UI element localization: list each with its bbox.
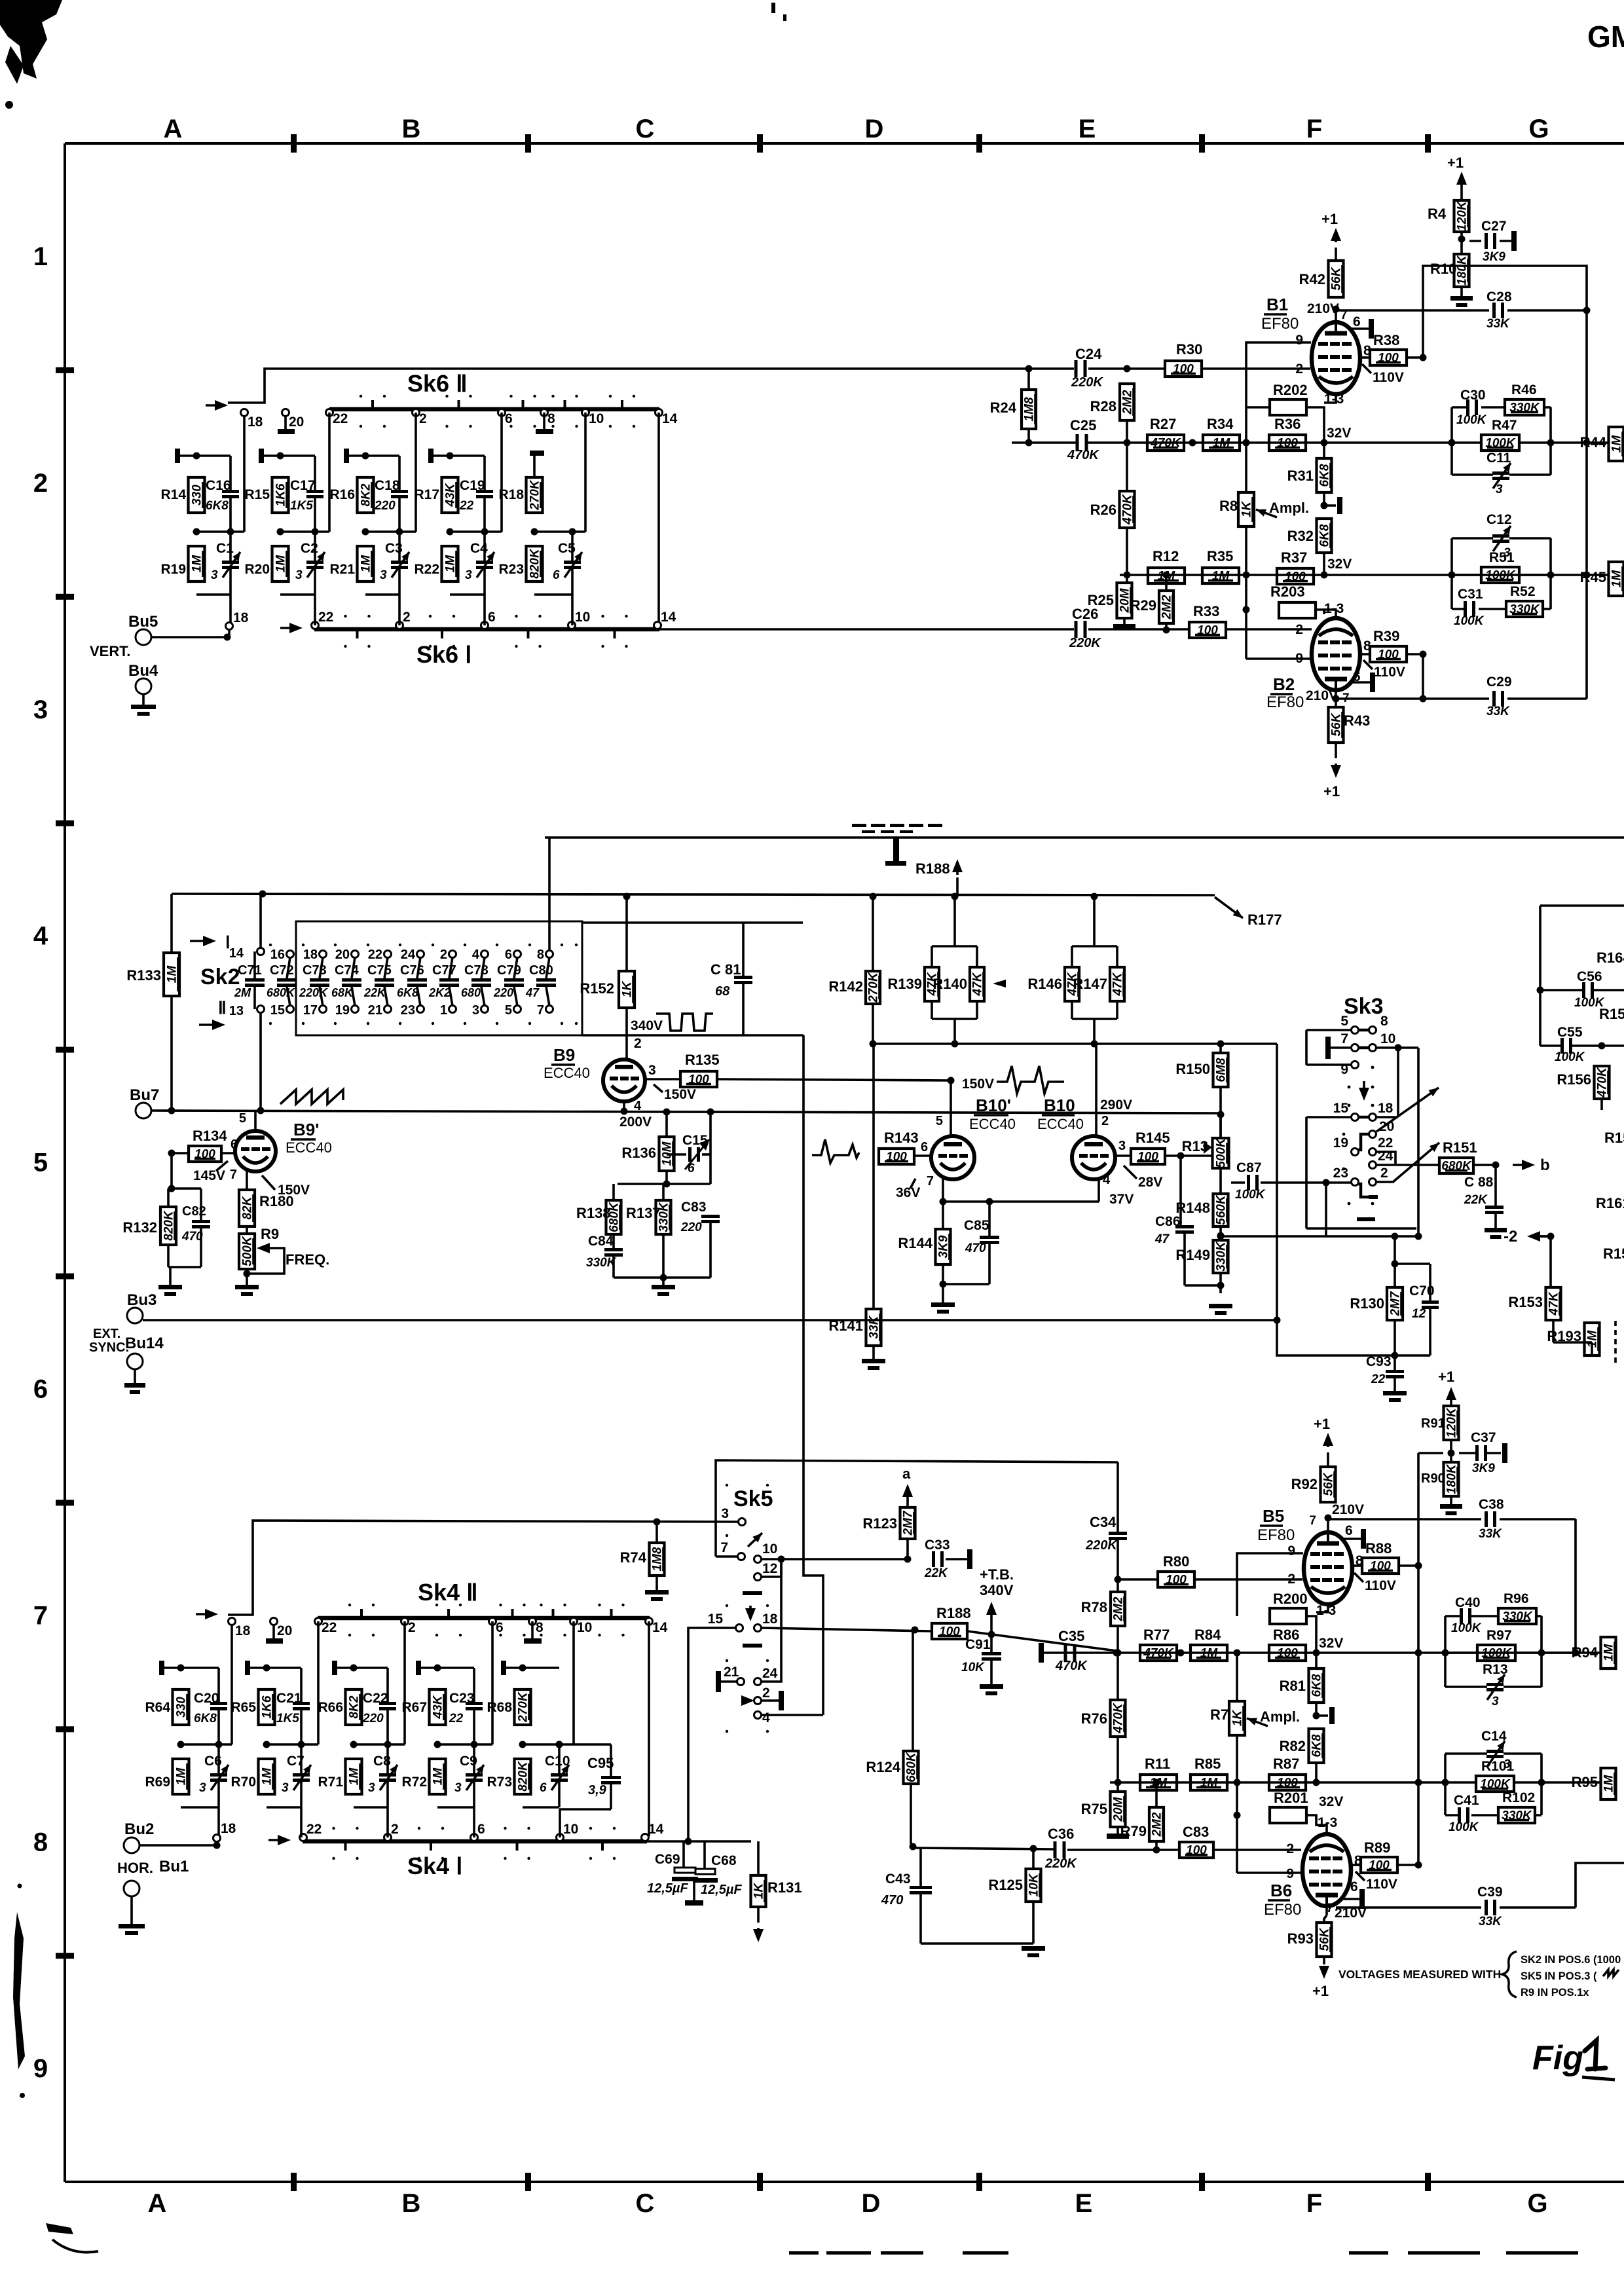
svg-text:C14: C14 <box>1481 1729 1507 1744</box>
tube B10' anode stem <box>950 1080 952 1136</box>
wire cap C22 <box>386 1668 389 1702</box>
svg-text:R71: R71 <box>318 1775 343 1790</box>
svg-text:220K: 220K <box>1085 1538 1118 1553</box>
svg-text:C15: C15 <box>682 1133 708 1148</box>
wires R130 C70 block <box>1393 1236 1396 1287</box>
switch Sk5 contact 12 <box>754 1574 762 1581</box>
svg-text:18: 18 <box>233 610 249 625</box>
capacitor C38 <box>1485 1511 1488 1527</box>
node arrow R177 <box>1215 897 1243 918</box>
svg-text:470: 470 <box>881 1893 903 1908</box>
scan dashes bottom edge <box>789 2251 819 2255</box>
switch Sk3 contacts 5 8 <box>1352 1027 1359 1034</box>
wire cap C3 stems <box>398 532 401 561</box>
switch Sk4 II contact 2 <box>401 1618 409 1625</box>
wire cap C7 stems <box>300 1744 303 1773</box>
resistor R45 <box>1609 562 1624 596</box>
wire R201 right to B6 cathode <box>1306 1815 1316 1820</box>
ground below C69 C68 <box>685 1900 703 1906</box>
svg-text:330K: 330K <box>586 1256 617 1270</box>
wires C43 <box>919 1848 922 1886</box>
ground at Sk6 II contact 20 <box>284 416 287 429</box>
capacitor C21 <box>293 1702 310 1705</box>
wire B5 cathode <box>1316 1604 1328 1612</box>
svg-text:C85: C85 <box>964 1218 989 1233</box>
svg-text:3: 3 <box>1492 1695 1499 1708</box>
tube B5 pin6 terminal <box>1342 1538 1361 1540</box>
wire B5 pin8 to R88 <box>1352 1564 1362 1567</box>
svg-text:C33: C33 <box>925 1538 950 1553</box>
svg-text:R136: R136 <box>621 1145 656 1161</box>
switch Sk6 I wiper arrow <box>280 627 295 629</box>
switch Sk3 contact 23 <box>1352 1179 1359 1186</box>
svg-text:6K8: 6K8 <box>206 499 229 513</box>
svg-text:R66: R66 <box>318 1700 343 1715</box>
wire Sk2 box top extension <box>582 921 803 924</box>
wire R200 right to cathode <box>1306 1616 1316 1654</box>
svg-text:R82: R82 <box>1280 1738 1306 1754</box>
capacitor C74 <box>342 978 361 982</box>
parallel R146 R147 <box>1072 945 1117 948</box>
wire cell4 bottom to contact 6 Sk4 <box>473 1807 475 1837</box>
wires R138 R137 C83 C84 <box>612 1184 615 1200</box>
capacitor C73 <box>310 978 329 982</box>
wire R13 R148 column <box>1219 1115 1222 1138</box>
svg-text:22K: 22K <box>924 1566 948 1580</box>
switch Sk5 contact 2 <box>754 1697 762 1705</box>
svg-text:9: 9 <box>1287 1543 1295 1558</box>
svg-text:R28: R28 <box>1090 398 1116 415</box>
svg-text:R47: R47 <box>1492 418 1517 433</box>
resistor R20 <box>272 546 289 581</box>
svg-text:6: 6 <box>921 1140 928 1154</box>
svg-text:6: 6 <box>231 1137 238 1152</box>
wire C93 ground <box>1393 1355 1396 1370</box>
svg-text:D: D <box>862 2189 881 2218</box>
svg-text:15: 15 <box>708 1612 724 1627</box>
wire cell bottom R15 <box>280 593 315 596</box>
svg-text:C93: C93 <box>1366 1354 1392 1369</box>
svg-text:C78: C78 <box>464 963 489 978</box>
switch Sk4 I contact 10 <box>557 1834 564 1841</box>
svg-text:R4: R4 <box>1428 206 1447 222</box>
svg-text:C23: C23 <box>449 1691 475 1706</box>
compensation block C14 R101 C41 R102 <box>1444 1754 1447 1815</box>
resistor R150 <box>1213 1053 1228 1087</box>
svg-text:8: 8 <box>33 1828 48 1856</box>
wire R149 bottom ground <box>1219 1273 1222 1293</box>
svg-text:9: 9 <box>33 2054 48 2083</box>
svg-text:220K: 220K <box>1044 1856 1077 1871</box>
resistor R36 <box>1269 435 1306 451</box>
wire C81 stems <box>742 923 745 976</box>
svg-text:3: 3 <box>465 568 472 582</box>
svg-text:R152: R152 <box>580 980 614 997</box>
wire cell top R64 <box>162 1667 219 1669</box>
svg-text:Sk4 Ⅰ: Sk4 Ⅰ <box>407 1853 463 1879</box>
svg-text:R9 IN POS.1x: R9 IN POS.1x <box>1521 1987 1589 1999</box>
svg-text:Bu3: Bu3 <box>127 1291 157 1309</box>
resistor R91 <box>1444 1406 1459 1440</box>
svg-text:Ampl.: Ampl. <box>1260 1708 1300 1725</box>
tube B9' pin7 stem <box>246 1170 248 1190</box>
tube B9' ECC40 <box>235 1131 276 1171</box>
wire ext sync drop <box>1276 1044 1278 1320</box>
wire cell bottom R66 <box>354 1806 388 1809</box>
wire Sk2 to Sk5 link risers <box>803 1035 823 1715</box>
capacitor C22 <box>379 1702 396 1705</box>
wire R38 output riser <box>1423 266 1587 699</box>
svg-text:R161: R161 <box>1596 1195 1624 1211</box>
svg-text:20: 20 <box>289 415 304 430</box>
svg-text:5: 5 <box>505 1003 512 1018</box>
switch Sk2 contact 7 bottom <box>546 1006 553 1013</box>
node arrow -2 <box>1535 1235 1547 1238</box>
wire contact8 drop <box>548 838 551 951</box>
resistor R83 <box>1179 1842 1213 1858</box>
resistor R73 <box>515 1759 531 1794</box>
wire B5 pin9 left <box>1237 1553 1303 1616</box>
switch Sk4 I ticks <box>344 1840 347 1851</box>
switch Sk6 II contact 2 <box>413 409 420 416</box>
terminal bar contact 21 <box>716 1671 721 1692</box>
resistor R81 <box>1309 1668 1324 1703</box>
svg-text:B9: B9 <box>553 1045 575 1065</box>
capacitor trimmer C6 <box>210 1773 227 1777</box>
wire cap C5 stems <box>571 532 574 561</box>
resistor R123 <box>900 1507 915 1539</box>
wire Sk6 I output to E <box>659 628 1074 631</box>
ground below C88 <box>1485 1228 1507 1232</box>
svg-text:R156: R156 <box>1557 1071 1591 1088</box>
wire R151 row <box>1376 1164 1439 1166</box>
capacitor C87 <box>1247 1175 1250 1190</box>
svg-text:R95: R95 <box>1572 1774 1598 1790</box>
wire B1 pin9 left <box>1246 342 1311 407</box>
power +1 above R92 <box>1327 1441 1329 1447</box>
resistor R39 <box>1370 646 1407 662</box>
input terminal for R64 <box>159 1661 164 1675</box>
svg-text:ECC40: ECC40 <box>1037 1116 1084 1132</box>
switch Sk3 dash marks <box>1357 1217 1375 1221</box>
svg-text:2: 2 <box>1380 1166 1388 1181</box>
wire contact 2 to cell3 mid <box>415 413 417 532</box>
svg-text:C74: C74 <box>335 963 360 978</box>
svg-text:C12: C12 <box>1486 512 1512 527</box>
wire contact 18 to R188 <box>761 1628 932 1631</box>
wire cap C6 stems <box>217 1744 220 1773</box>
switch Sk2 contact 13 <box>257 1006 265 1013</box>
wire B6 anode line through C39 <box>1336 1906 1481 1909</box>
svg-text:24: 24 <box>1378 1149 1393 1164</box>
power +T.B. 340V arrow <box>990 1610 993 1616</box>
svg-text:6: 6 <box>488 610 496 625</box>
switch Sk2 contact 4 top <box>481 951 489 958</box>
svg-text:R90: R90 <box>1421 1471 1445 1486</box>
switch Sk2 contact 14 <box>257 948 265 955</box>
svg-text:3: 3 <box>1496 483 1503 496</box>
potentiometer R7 <box>1229 1701 1245 1735</box>
resistor R72 <box>430 1759 446 1794</box>
svg-text:24: 24 <box>762 1666 778 1681</box>
resistor R130 <box>1387 1287 1403 1320</box>
wires R136 C15 <box>665 1112 668 1137</box>
capacitor C19 <box>476 490 493 493</box>
svg-text:14: 14 <box>662 411 678 426</box>
svg-text:22: 22 <box>1371 1373 1386 1386</box>
svg-text:Bu2: Bu2 <box>124 1820 154 1838</box>
svg-text:C 88: C 88 <box>1464 1175 1494 1190</box>
svg-text:37V: 37V <box>1109 1192 1134 1207</box>
svg-text:C28: C28 <box>1486 289 1512 304</box>
wire cell3 bottom to contact 2 <box>398 595 401 625</box>
wire Bu7 row <box>151 1111 1221 1113</box>
svg-text:7: 7 <box>537 1003 544 1018</box>
switch Sk2 contact 15 bottom <box>287 1006 294 1013</box>
svg-text:R130: R130 <box>1350 1295 1384 1312</box>
ground below R75 <box>1116 1827 1119 1834</box>
wire C91 ground <box>990 1634 993 1652</box>
wire cell top R18 <box>533 456 536 477</box>
wire R201 column <box>1236 1782 1238 1873</box>
svg-text:10K: 10K <box>961 1661 985 1674</box>
svg-text:R157: R157 <box>1599 1006 1624 1022</box>
svg-text:R135: R135 <box>685 1052 720 1068</box>
svg-text:R96: R96 <box>1504 1591 1529 1606</box>
wire Sk4II wiper to Sk5 <box>228 1521 739 1615</box>
svg-text:C43: C43 <box>885 1871 911 1887</box>
resistor R21 <box>358 546 374 581</box>
capacitor C28 <box>1492 303 1496 318</box>
wire riser C39 up <box>1576 1863 1624 1908</box>
svg-text:10: 10 <box>563 1822 578 1837</box>
wire C78 stems <box>481 957 485 978</box>
svg-text:B: B <box>402 2189 421 2218</box>
wire R133 column <box>170 894 173 953</box>
resistor R86 <box>1269 1645 1306 1661</box>
wire cap C20 <box>217 1668 220 1702</box>
svg-text:b: b <box>1540 1156 1550 1174</box>
dashed line right edge <box>1614 1321 1617 1326</box>
svg-text:3,9: 3,9 <box>588 1783 607 1797</box>
svg-text:R23: R23 <box>498 562 524 577</box>
svg-text:R146: R146 <box>1027 976 1062 992</box>
svg-text:R69: R69 <box>145 1775 170 1790</box>
power arrow R188 up <box>956 867 959 875</box>
wire C73 stems <box>320 957 323 978</box>
wire C76 stems <box>417 957 420 978</box>
svg-text:20: 20 <box>335 948 350 962</box>
svg-text:C79: C79 <box>497 963 521 978</box>
switch Sk2 position dots <box>269 944 272 946</box>
tube B9' pin6 wire <box>221 1152 235 1154</box>
svg-text:8: 8 <box>537 948 544 962</box>
resistor R23 <box>526 546 543 581</box>
svg-text:EF80: EF80 <box>1257 1526 1295 1544</box>
capacitor C24 <box>1075 360 1078 377</box>
wire R32 bottom <box>1323 553 1325 575</box>
switch Sk2 contact 6 top <box>514 951 521 958</box>
svg-text:15: 15 <box>1333 1101 1349 1116</box>
switch Sk5 contact 24 <box>754 1678 762 1686</box>
resistor R27 <box>1147 435 1184 451</box>
switch Sk2 contact 5 bottom <box>514 1006 521 1013</box>
svg-text:22: 22 <box>368 948 382 962</box>
switch Sk5 contact 21 <box>737 1678 745 1686</box>
svg-text:A: A <box>164 115 183 143</box>
resistor R33 <box>1189 622 1226 638</box>
wire R134 left node <box>172 1152 189 1154</box>
svg-text:R139: R139 <box>887 976 922 992</box>
svg-text:6: 6 <box>505 411 513 426</box>
compensation block C40 R96 R97 R13-2 <box>1444 1616 1447 1687</box>
svg-text:18: 18 <box>762 1612 778 1627</box>
wire cell top R65 <box>248 1667 301 1669</box>
svg-text:3: 3 <box>368 1781 375 1795</box>
parallel R132 C82 <box>172 1187 201 1190</box>
svg-text:+1: +1 <box>1321 211 1338 227</box>
svg-text:C10: C10 <box>545 1754 570 1769</box>
wire R123 bottom <box>906 1539 909 1559</box>
svg-text:R101: R101 <box>1481 1759 1515 1774</box>
wire contact 10 row <box>761 1558 908 1560</box>
ground below R25 <box>1123 618 1126 624</box>
svg-text:C25: C25 <box>1070 417 1096 433</box>
resistor R201 <box>1270 1807 1306 1823</box>
resistor R77 <box>1140 1645 1177 1661</box>
svg-text:C73: C73 <box>303 963 327 978</box>
svg-text:G: G <box>1528 115 1549 143</box>
svg-text:B1: B1 <box>1266 295 1288 314</box>
svg-text:R188: R188 <box>915 860 950 877</box>
input terminal for R17 <box>428 449 434 463</box>
svg-text:4: 4 <box>472 948 480 962</box>
resistor R125 <box>1026 1869 1041 1902</box>
resistor R133 <box>164 953 179 996</box>
svg-text:18: 18 <box>1378 1101 1393 1116</box>
svg-text:R26: R26 <box>1090 502 1116 518</box>
wire cap C9 stems <box>473 1744 475 1773</box>
svg-text:145V: 145V <box>193 1168 225 1183</box>
svg-text:C36: C36 <box>1048 1826 1074 1842</box>
svg-text:6: 6 <box>553 568 560 582</box>
svg-text:R97: R97 <box>1486 1628 1512 1643</box>
wire B6 cathode top <box>1316 1815 1327 1834</box>
svg-text:C16: C16 <box>206 478 231 493</box>
wire cathodes B10 B10' <box>943 1200 1099 1203</box>
svg-text:R33: R33 <box>1193 603 1219 619</box>
wire R81 stems <box>1315 1653 1318 1668</box>
resistor R64 <box>173 1689 189 1725</box>
wire riser B5 block <box>1417 1453 1420 1865</box>
svg-text:100K: 100K <box>1456 413 1487 427</box>
resistor R148 <box>1213 1194 1228 1226</box>
svg-text:R89: R89 <box>1364 1839 1390 1856</box>
resistor R51 <box>1481 567 1519 583</box>
svg-text:R65: R65 <box>231 1700 256 1715</box>
input terminal for R14 <box>175 449 180 463</box>
svg-text:5: 5 <box>1340 1014 1348 1029</box>
capacitor C91 <box>982 1652 1001 1655</box>
svg-text:R42: R42 <box>1299 271 1325 287</box>
wire R9 bottom ground <box>246 1269 248 1285</box>
switch Sk6 I position dots <box>344 615 346 618</box>
svg-text:13: 13 <box>229 1004 244 1018</box>
svg-text:C56: C56 <box>1577 969 1602 984</box>
svg-text:C69: C69 <box>655 1852 680 1867</box>
svg-text:18: 18 <box>235 1623 251 1638</box>
svg-text:2: 2 <box>1101 1114 1109 1128</box>
capacitor C27 <box>1485 233 1488 249</box>
svg-text:EF80: EF80 <box>1266 693 1304 711</box>
switch Sk5 contact 4 <box>754 1712 762 1719</box>
capacitor C86 <box>1175 1225 1194 1228</box>
switch Sk5 wiper mark 3-7 <box>748 1533 762 1547</box>
tube B9 pin3 wire <box>644 1078 680 1080</box>
svg-text:22: 22 <box>459 499 474 513</box>
svg-text:100K: 100K <box>1235 1188 1266 1202</box>
switch Sk4 II contact 6 <box>489 1618 496 1625</box>
svg-text:R76: R76 <box>1081 1710 1107 1727</box>
wire cap C1 stems <box>229 532 232 561</box>
svg-text:R19: R19 <box>160 562 186 577</box>
svg-text:36V: 36V <box>896 1185 920 1200</box>
wire R153 riser <box>1549 1236 1552 1287</box>
op-amp tube B1 EF80 <box>1312 322 1360 394</box>
switch Sk3 left bracket upper <box>1305 1030 1308 1065</box>
potentiometer R9 <box>239 1234 255 1269</box>
svg-text:C55: C55 <box>1557 1025 1583 1040</box>
resistor R76 <box>1111 1700 1126 1737</box>
svg-text:100K: 100K <box>1454 614 1485 628</box>
svg-text:R52: R52 <box>1510 584 1536 599</box>
svg-text:R21: R21 <box>329 562 355 577</box>
wire R152 column 340V <box>625 896 628 971</box>
svg-text:A: A <box>148 2189 167 2218</box>
wire cell mid R66 <box>354 1743 388 1746</box>
svg-text:C19: C19 <box>460 478 485 493</box>
svg-text:7: 7 <box>230 1168 237 1182</box>
svg-text:R64: R64 <box>145 1700 170 1715</box>
resistor R138 <box>606 1200 621 1234</box>
wire contact 18 to cell1 mid <box>243 416 246 532</box>
switch Sk6 I bus <box>314 627 659 632</box>
svg-text:R12: R12 <box>1153 548 1179 564</box>
wire CRT plate line row4 <box>545 836 1624 839</box>
svg-text:R70: R70 <box>231 1775 256 1790</box>
svg-text:Bu7: Bu7 <box>130 1086 159 1104</box>
resistor R78 <box>1111 1592 1125 1626</box>
wire R188 to TB <box>967 1631 1116 1651</box>
wire R82 bottom <box>1315 1763 1318 1782</box>
terminal bar after C27 <box>1511 231 1517 251</box>
switch Sk5 position dots <box>726 1484 728 1486</box>
svg-text:1K5: 1K5 <box>276 1712 299 1725</box>
switch Sk6 II contact 10 <box>582 409 589 416</box>
resistor R151 <box>1439 1158 1473 1173</box>
capacitor C17 <box>306 490 323 493</box>
svg-text:R30: R30 <box>1176 341 1202 358</box>
wire R83 to B6 grid <box>1213 1849 1301 1851</box>
svg-text:R43: R43 <box>1344 712 1370 729</box>
resistor R69 <box>173 1759 189 1794</box>
resistor R24 <box>1022 390 1036 429</box>
svg-text:R153: R153 <box>1508 1294 1543 1310</box>
svg-text:220: 220 <box>680 1221 702 1234</box>
svg-text:R38: R38 <box>1373 332 1399 348</box>
switch Sk4 II position dots <box>348 1604 351 1606</box>
resistor R12 <box>1148 568 1185 583</box>
